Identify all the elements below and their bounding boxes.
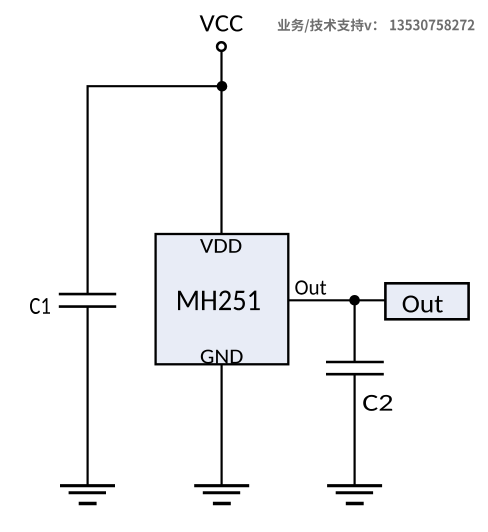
wire Out pin to output port: [288, 299, 385, 301]
IC U1 MH251 body: [156, 234, 289, 364]
ground G2: [194, 486, 249, 504]
label C1: [30, 298, 50, 314]
capacitor C2: [326, 362, 384, 374]
junction node VCC rail: [217, 81, 228, 92]
watermark support text: [278, 19, 475, 33]
wire VCC terminal to VDD pin: [220, 52, 222, 234]
pin label Out: [295, 280, 326, 294]
wire C1 to ground: [86, 307, 88, 486]
ground G1: [60, 486, 115, 504]
pin label VDD: [200, 239, 241, 253]
wire GND pin to ground: [221, 364, 223, 485]
ground G3: [327, 486, 382, 504]
wire Out node to C2: [354, 300, 356, 362]
output port box Out: [385, 283, 468, 319]
label C2: [363, 395, 392, 411]
wire C2 to ground: [354, 374, 356, 485]
net label VCC: [200, 15, 243, 31]
part name MH251: [178, 291, 260, 311]
power terminal VCC: [217, 42, 226, 51]
port label Out: [403, 296, 443, 313]
pin label GND: [201, 350, 243, 364]
wire VCC rail to C1 branch: [88, 86, 222, 294]
junction node Out: [349, 295, 360, 306]
capacitor C1: [59, 294, 116, 307]
